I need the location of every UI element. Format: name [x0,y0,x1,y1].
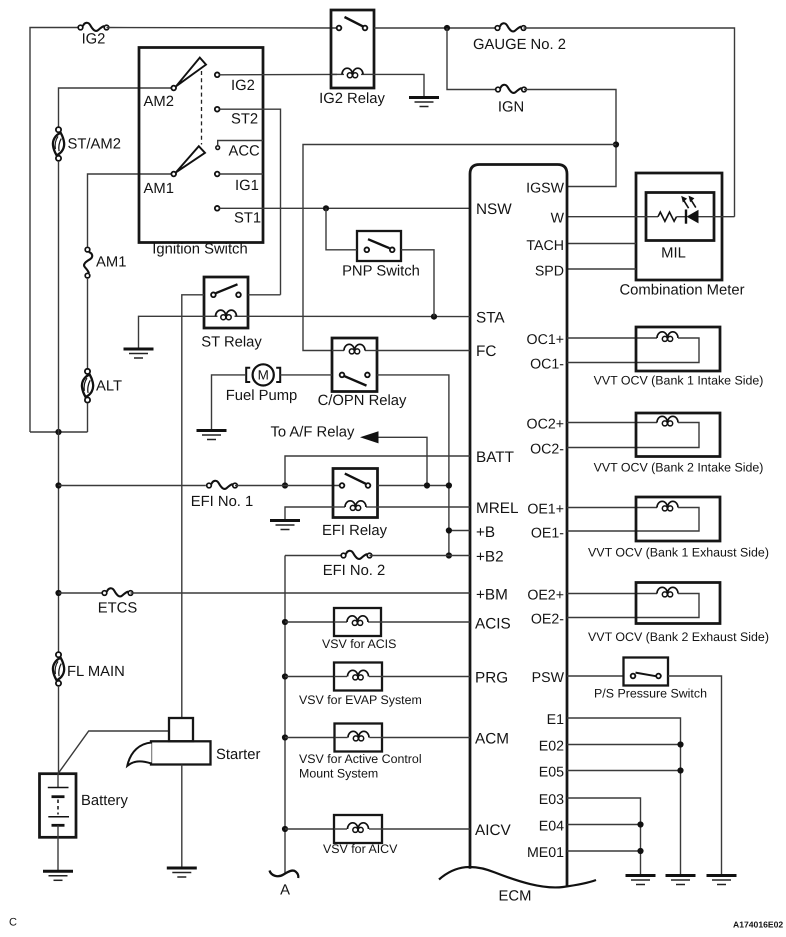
fusible link FL MAIN [51,652,66,686]
resistor MIL [658,212,676,221]
fuse IGN [496,85,527,93]
svg-text:A: A [280,883,290,899]
svg-text:SPD: SPD [535,264,564,280]
node ME01 [637,848,643,854]
VVT OCV (Bank 2 Exhaust) box [636,583,720,624]
svg-text:TACH: TACH [526,238,564,254]
svg-text:E04: E04 [539,819,564,835]
svg-text:+BM: +BM [476,587,508,604]
fuse AM1 [84,247,92,278]
wire: VSV AICV to ECM AICV [382,828,470,830]
svg-text:ST1: ST1 [234,211,261,227]
wire ST2 contact to ST relay [220,109,281,295]
contact ST1 [215,206,220,211]
svg-text:VVT OCV (Bank 2 Intake Side): VVT OCV (Bank 2 Intake Side) [594,461,764,475]
svg-text:VVT OCV (Bank 2 Exhaust Side): VVT OCV (Bank 2 Exhaust Side) [588,630,769,644]
svg-text:FC: FC [476,343,496,360]
wire: VSV ACIS to ECM ACIS [381,621,470,623]
svg-text:Fuel Pump: Fuel Pump [226,388,298,404]
wire: ST relay switch right to ST2 drop [248,294,281,296]
fuel pump brackets [246,368,280,382]
VSV AICV coil [334,828,347,830]
ground: EFI relay [270,521,300,530]
wire: bus to VSV ACM [285,737,335,739]
wire: EFI relay switch out [378,485,449,487]
relay C/OPN box [332,338,377,392]
wire: C/OPN coil to FC [377,350,470,352]
fuel pump motor [253,364,274,385]
svg-text:OE2+: OE2+ [527,588,564,604]
contact AM2 [171,86,176,91]
EFI relay coil [333,506,345,508]
wire: bus to VSV AICV [285,828,334,830]
wire: EFI relay coil to MREL [378,506,471,508]
node: ETCS bus tap [55,590,61,596]
ground: E1 group [666,876,696,885]
ground: ST relay [124,349,154,358]
ground: IG2 relay [409,98,439,107]
wire: IGN branch down [447,28,496,90]
svg-text:ST2: ST2 [231,112,258,128]
connector A tear [270,871,299,879]
wire: IG2 relay coil to ground [374,74,424,96]
VVT OCV bank1 exhaust: OE1+ loop [567,507,657,509]
svg-text:Combination Meter: Combination Meter [619,283,744,299]
node E05 [677,767,683,773]
wire: EFI relay coil to ground [285,507,333,520]
ECM bottom tear [439,867,596,888]
wire: bus to ETCS fuse [59,592,102,594]
node: +B column join [446,482,452,488]
fuse GAUGE No. 2 [495,23,526,31]
wire: bus to EFI No.1 fuse [59,485,206,487]
P/S blade [636,673,657,677]
svg-text:ECM: ECM [499,889,532,905]
wire: PNP to STA line [401,250,434,317]
svg-text:FL MAIN: FL MAIN [67,664,125,680]
svg-text:AM1: AM1 [144,181,174,197]
VSV ACM coil [335,737,348,739]
EFI relay switch contacts [340,483,345,488]
VVT OCV (Bank 2 Intake) box [636,413,720,457]
arrow to A/F relay [360,431,379,443]
svg-text:VSV for AICV: VSV for AICV [323,842,398,856]
fuse EFI No. 2 [341,551,372,559]
svg-text:ME01: ME01 [527,845,564,861]
node +B2 [446,552,452,558]
C/OPN switch contacts [340,373,345,378]
MIL inner box [646,193,714,241]
node E04 [637,821,643,827]
svg-text:ACIS: ACIS [475,616,511,633]
svg-text:Ignition Switch: Ignition Switch [152,242,247,258]
svg-text:AICV: AICV [475,822,511,839]
ground: PSW [707,876,737,885]
wire: main bus down to battery [58,432,60,652]
lever AM1 [176,146,205,172]
wire PSW to switch [567,675,624,677]
node: ACM tap [282,734,288,740]
C/OPN blade [345,376,367,385]
wire: ST/AM2 to main junction [58,161,60,432]
node: STA / PNP join [431,314,437,320]
combination meter box [636,173,722,280]
wire: FL MAIN to battery [58,686,60,774]
starter terminal box [169,718,193,741]
VSV for EVAP box [334,663,382,691]
wire: bus to VSV EVAP [285,676,334,678]
svg-text:M: M [258,368,269,383]
VVT OCV (Bank 1 Exhaust) box [636,497,720,541]
node: EFI No.1 bus tap [55,482,61,488]
svg-text:OC2-: OC2- [530,442,564,458]
svg-text:E1: E1 [547,712,564,728]
node: junction main bus / frame [55,429,61,435]
wire: LED to right drop [699,216,735,218]
svg-text:PNP Switch: PNP Switch [342,264,420,280]
wire: branch to C/OPN relay coil [303,145,616,351]
PNP blade [368,239,390,248]
wire: VSV ACM to ECM ACM [382,737,470,739]
svg-text:VSV for EVAP System: VSV for EVAP System [299,693,422,707]
wire E03 [567,798,641,875]
IG2 relay blade [345,17,364,27]
svg-text:OE1+: OE1+ [527,502,564,518]
IG2 relay switch contacts [337,26,342,31]
svg-text:C: C [9,917,17,929]
wire: top feed from frame corner to IG2 fuse [30,28,78,433]
svg-text:EFI No. 2: EFI No. 2 [323,563,386,579]
svg-text:E03: E03 [539,792,564,808]
wire: EFI No.1 fuse to EFI relay [235,485,340,487]
EFI relay blade [345,474,366,484]
ST relay switch contacts [211,292,216,297]
wire ST1 to ECM NSW [220,207,471,209]
VVT OCV bank2 exhaust: OE2+ loop [567,593,657,595]
node: EVAP tap [282,673,288,679]
wire ME01 [567,850,641,852]
wire: P/S to ground [668,676,722,875]
wire E1 [567,718,681,875]
wire: VSV bus top to EFI No.2 fuse [285,555,341,557]
VSV ACIS coil [334,621,347,623]
wire: W pin to resistor [567,216,658,218]
wire: AM1 feed from ignition switch [88,174,172,247]
svg-text:Mount System: Mount System [299,767,378,781]
svg-text:IGSW: IGSW [526,181,564,197]
svg-text:IGN: IGN [498,100,524,116]
battery box [40,774,77,838]
svg-text:ST/AM2: ST/AM2 [68,137,121,153]
ground: starter [167,868,197,877]
svg-text:NSW: NSW [476,201,512,218]
wire: ST relay coil to STA [248,315,470,317]
LED arrow 1 [684,200,689,208]
wire TACH [567,243,636,245]
svg-text:IG2 Relay: IG2 Relay [319,91,385,107]
wire BATT [285,456,470,486]
wire +B [449,530,470,532]
svg-text:C/OPN Relay: C/OPN Relay [318,393,407,409]
fuse ETCS [102,588,133,596]
svg-text:IG2: IG2 [82,32,106,48]
svg-text:GAUGE No. 2: GAUGE No. 2 [473,37,566,53]
VVT OCV bank2 intake: OC2+ loop [567,422,657,424]
wire: IG2 fuse to IG2 relay switch [107,27,338,30]
wire IG1 to box edge [220,173,264,175]
wire: AM2 feed [59,88,172,127]
LED MIL cathode bar [685,210,687,224]
ST relay coil [204,315,218,317]
svg-text:IG1: IG1 [235,178,259,194]
svg-text:BATT: BATT [476,449,514,466]
wire: fuel pump to C/OPN switch [280,374,332,376]
wire: ETCS to +BM [131,592,471,594]
node: A/F join [424,482,430,488]
wire: AM1 fuse to ALT link [87,279,89,369]
PNP contacts [364,247,369,252]
wire IG2 contact to relay coil [220,73,338,75]
svg-text:OC1-: OC1- [530,357,564,373]
wire: battery diagonal to starter [58,731,169,774]
wire: ALT link to frame jog [87,403,89,432]
svg-text:IG2: IG2 [231,78,255,94]
svg-text:MREL: MREL [476,500,519,517]
svg-text:+B2: +B2 [476,549,504,566]
svg-text:AM2: AM2 [144,94,174,110]
svg-text:W: W [551,211,565,227]
node: IGSW / C-OPN branch [613,141,619,147]
wire E04 [567,824,641,826]
svg-text:P/S Pressure Switch: P/S Pressure Switch [594,687,707,701]
wire: VSV EVAP to ECM PRG [382,676,470,678]
svg-text:ST Relay: ST Relay [201,335,262,351]
svg-text:ALT: ALT [96,379,122,395]
wire: VSV bus [284,556,286,874]
contact ACC [216,146,220,150]
contact IG1 [215,172,220,177]
svg-text:PRG: PRG [475,670,508,687]
VSV EVAP coil [334,676,347,678]
C/OPN coil [332,350,344,352]
battery internals [57,774,59,788]
P/S pressure switch box [624,658,669,686]
wire: battery to ground [57,837,59,870]
relay ST box [204,277,248,328]
ground: fuel pump [197,431,227,440]
wire ACC to box edge [218,141,263,146]
fusible link ALT [80,369,95,403]
node E02 [677,741,683,747]
svg-text:OC2+: OC2+ [527,417,564,433]
svg-text:OE2-: OE2- [531,612,564,628]
svg-text:PSW: PSW [532,670,565,686]
node: NSW / PNP branch [323,205,329,211]
wire: NSW branch to PNP [326,208,357,250]
relay EFI box [333,469,378,518]
svg-text:VSV for ACIS: VSV for ACIS [322,637,396,651]
LED arrow 2 [691,200,696,208]
wire: frame bottom jog to ALT column [30,431,88,433]
wire: IG2 relay switch out to GAUGE fuse [374,27,495,29]
lever AM2 [176,58,206,87]
wire: gauge fuse to meter drop [524,28,735,217]
contact AM1 [171,172,176,177]
wire: EFI No.2 fuse to +B2 [370,555,471,557]
node: ACIS tap [282,619,288,625]
VSV for AICV box [334,815,382,843]
fusible link ST/AM2 [51,127,66,161]
wire: starter to ground [181,765,183,868]
starter body box [151,741,211,764]
node +B [446,527,452,533]
svg-text:+B: +B [476,524,495,541]
contact ST2 [215,107,220,112]
relay IG2 box [331,10,374,88]
svg-text:ETCS: ETCS [98,601,138,617]
P/S contacts [631,674,636,679]
switch PNP box [357,231,401,261]
svg-text:Starter: Starter [216,747,260,763]
wire: fuel pump to ground [212,375,247,430]
node: AICV tap [282,826,288,832]
ECM box [470,165,567,888]
wire: resistor to LED [677,216,687,218]
svg-text:EFI No. 1: EFI No. 1 [191,494,254,510]
svg-text:To A/F Relay: To A/F Relay [271,425,355,441]
VVT OCV bank1 intake: OC1+ loop [567,337,657,339]
wire E05 [567,770,681,772]
wire: C/OPN switch to +B column [377,375,449,556]
svg-text:VVT OCV (Bank 1 Exhaust Side): VVT OCV (Bank 1 Exhaust Side) [588,546,769,560]
fuse IG2 [78,23,109,31]
wire SPD [567,268,636,270]
ST relay blade [216,284,238,293]
ignition switch box [139,48,263,243]
VSV for ACIS box [334,608,381,636]
wire: IGN fuse to IGSW drop [524,90,616,187]
wire E02 [567,744,681,746]
node: BATT / EFI No.1 join [282,482,288,488]
svg-text:Battery: Battery [81,793,128,809]
svg-text:STA: STA [476,310,505,327]
LED MIL triangle [687,210,699,224]
starter nose [127,743,151,766]
fuse EFI No. 1 [207,481,238,489]
wire: bus to VSV ACIS [285,621,334,623]
svg-text:E02: E02 [539,739,564,755]
ground: battery [43,871,73,880]
svg-text:VVT OCV (Bank 1 Intake Side): VVT OCV (Bank 1 Intake Side) [594,374,764,388]
svg-text:ACC: ACC [229,144,261,160]
svg-text:A174016E02: A174016E02 [733,920,783,930]
dashed link between levers [201,71,203,145]
node: gauge branch [444,25,450,31]
svg-text:E05: E05 [539,765,564,781]
ground: E03 group [626,876,656,885]
svg-text:VSV for Active Control: VSV for Active Control [299,752,422,766]
svg-text:AM1: AM1 [96,255,126,271]
IG2 relay coil [331,73,344,75]
wire: ST relay switch to starter column [182,295,204,718]
contact IG2 [215,72,220,77]
svg-text:OC1+: OC1+ [527,332,564,348]
svg-text:MIL: MIL [661,246,686,262]
wire: ST relay coil to ground [139,316,205,348]
VSV for Active Control Mount box [335,724,383,752]
wire: A/F arrow line [379,437,428,485]
svg-text:ACM: ACM [475,731,509,748]
VVT OCV (Bank 1 Intake) box [636,327,720,371]
svg-text:EFI Relay: EFI Relay [322,523,388,539]
svg-text:OE1-: OE1- [531,526,564,542]
